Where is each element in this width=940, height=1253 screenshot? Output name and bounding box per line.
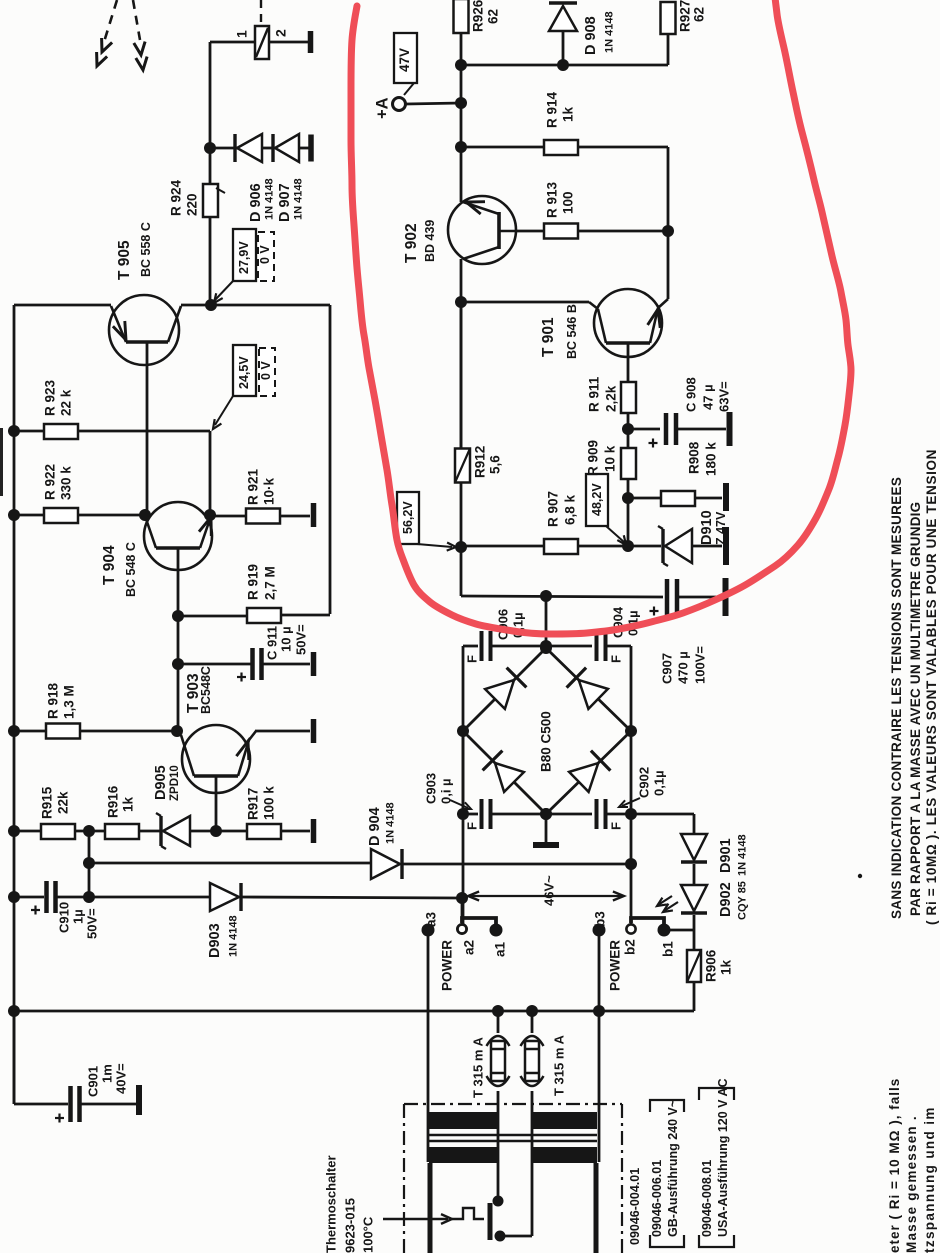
svg-text:R926: R926 [471,0,486,32]
vertical T904 base to T903 collector [177,616,180,731]
svg-text:10·k: 10·k [262,477,277,505]
transistor T903 BC548C (NPN) [182,725,250,793]
svg-text:09046-006.01: 09046-006.01 [650,1160,664,1237]
svg-text:eter ( Ri = 10 MΩ ), falls: eter ( Ri = 10 MΩ ), falls [887,1078,902,1253]
svg-text:1N 4148: 1N 4148 [264,178,276,220]
svg-text:R 913: R 913 [545,181,560,218]
svg-text:Thermoschalter: Thermoschalter [323,1155,338,1253]
measure box 24,5V / 0V [233,345,256,396]
svg-text:1k: 1k [561,106,576,122]
svg-text:ZPD10: ZPD10 [169,765,181,801]
svg-text:2,2k: 2,2k [604,385,619,412]
transistor T904 BC548C (NPN) [144,502,212,570]
diode D904 1N4148 [371,849,400,879]
measure box 48,2V [586,474,608,526]
svg-text:BC 558 C: BC 558 C [139,222,153,277]
svg-text:R 914: R 914 [545,91,560,128]
svg-text:9623-015: 9623-015 [342,1198,357,1253]
bracket b2-b1 [631,918,664,926]
svg-text:PAR RAPPORT A LA MASSE AV: PAR RAPPORT A LA MASSE AVEC UN MULTIMETR… [908,502,923,916]
bridge diode top-right [579,680,608,709]
diode D907 1N4148 [262,147,273,150]
svg-text:D 908: D 908 [583,16,599,55]
svg-text:b2: b2 [623,939,638,955]
46V~ measure arrow [470,895,622,897]
resistor R906 1k (safety) [693,930,696,950]
diode D901 1N4148 [681,860,707,863]
svg-text:10 k: 10 k [603,445,618,472]
svg-text:470 µ: 470 µ [675,651,690,684]
bracket USA version [699,1088,734,1100]
svg-text:100°C: 100°C [360,1216,375,1253]
svg-text:1N 4148: 1N 4148 [293,178,305,220]
zener D905 ZPD10 [159,816,162,846]
svg-text:1N 4148: 1N 4148 [385,802,397,844]
transistor T901 BC546B (NPN) [594,289,662,357]
svg-text:D902: D902 [718,882,734,917]
svg-text:R927: R927 [678,0,693,32]
svg-text:R 923: R 923 [43,379,58,416]
wire to D904 [89,862,371,865]
LED D902 CQY85 [693,915,696,930]
svg-text:T 904: T 904 [101,545,118,585]
svg-text:09046-008.01: 09046-008.01 [700,1160,714,1237]
capacitor C906 0,1u F [480,631,484,661]
resistor R914 1k [455,141,467,153]
transistor T905 BC558C (PNP) [109,295,179,365]
svg-text:R 921: R 921 [246,468,261,505]
terminal +A 47V [455,97,467,109]
node junction D906 [204,142,216,154]
svg-text:1,3 M: 1,3 M [62,685,77,719]
resistor R926 62 [454,0,469,33]
wire pin1 to corner [210,41,256,44]
svg-text:T 315 m A: T 315 m A [470,1036,485,1098]
bridge left vertical / AC a input [462,646,465,924]
top bus 47V [460,65,463,103]
svg-text:R 918: R 918 [46,682,61,719]
svg-text:C907: C907 [659,653,674,684]
svg-text:a1: a1 [493,941,508,957]
resistor R915 22k [8,825,20,837]
resistor R919 2,7M [178,615,247,618]
svg-text:R 922: R 922 [43,464,58,500]
bridge bottom line with C903/C902 [462,731,465,814]
svg-text:1k: 1k [719,959,734,975]
svg-text:1k: 1k [121,796,136,812]
svg-text:R916: R916 [106,785,121,818]
resistor R909 10k [627,479,630,498]
svg-text:R 924: R 924 [169,179,184,216]
svg-text:D901: D901 [718,838,734,873]
bottom bus [14,1010,694,1013]
node R915/R916 [83,825,95,837]
left rail [13,305,16,1104]
svg-text:0,1µ: 0,1µ [651,770,666,796]
T905 collector wire to right bus [181,304,330,307]
svg-text:USA-Ausführung 120 V AC: USA-Ausführung 120 V AC [716,1078,730,1237]
svg-text:100: 100 [561,191,576,214]
wire 48,2V node up [627,498,630,546]
svg-text:1µ: 1µ [70,909,85,924]
svg-text:46V~: 46V~ [541,875,556,906]
svg-text:6,8 k: 6,8 k [563,494,578,525]
T901 collector wire [589,302,598,309]
node C910/D903 [83,891,95,903]
node T903 base [210,825,222,837]
zener D910 Z47V [661,529,664,563]
svg-text:R 907: R 907 [546,491,561,527]
node T904 base / R919 [172,610,184,622]
resistor R924 220 [209,148,212,184]
svg-text:POWER: POWER [440,940,455,991]
svg-text:2,7 M: 2,7 M [263,566,278,600]
capacitor C908 47u 63V [628,428,660,431]
svg-text:5,6: 5,6 [488,455,503,474]
bridge right vertical [630,646,633,864]
terminal a1 [490,924,503,937]
T902 emitter to +A bus [460,103,463,202]
svg-text:GB-Ausführung 240 V~: GB-Ausführung 240 V~ [666,1100,680,1237]
svg-text:C901: C901 [85,1066,100,1097]
bridge ground [545,814,548,842]
resistor R911 2,2k [627,413,630,429]
svg-text:D905: D905 [153,765,169,800]
leader arrow to T905 collector node [215,281,233,300]
resistor R921 10k [210,515,246,518]
T905 emitter wire to left rail [14,304,111,307]
node T903 collector [171,725,183,737]
svg-text:T 902: T 902 [403,223,420,263]
node 56,2V [455,541,467,553]
resistor R927 62 [661,2,676,34]
svg-text:b3: b3 [593,911,608,927]
main + rail from bridge [545,596,548,646]
svg-text:BC548C: BC548C [199,666,213,714]
capacitor C907 470u 100V [665,579,670,615]
diode D903 1N4148 [89,896,210,899]
svg-text:CQY 85: CQY 85 [737,881,749,920]
red hand-drawn loop [351,0,851,634]
svg-text:C910: C910 [56,902,71,933]
wire down to D906 node [209,42,212,148]
R912 5,6 safety resistor [460,482,463,596]
svg-text:22 k: 22 k [59,389,74,416]
measure box 56,2V [397,492,419,544]
svg-text:100V=: 100V= [692,646,707,684]
svg-text:47 µ: 47 µ [700,384,715,410]
svg-text:R 919: R 919 [246,564,261,600]
svg-text:40V=: 40V= [113,1063,128,1094]
capacitor C904 0,1u F [595,631,599,661]
svg-text:B80 C500: B80 C500 [539,711,554,772]
svg-text:1N 4148: 1N 4148 [228,915,240,957]
node T905 collector [205,299,217,311]
svg-text:0 V: 0 V [259,361,273,380]
terminal b3 [593,924,606,937]
right bus R914 to T901 emitter [667,147,670,299]
svg-text:Masse gemessen .: Masse gemessen . [904,1115,919,1253]
transistor T902 BD439 (NPN power) [448,196,516,264]
svg-text:50V=: 50V= [84,908,99,939]
svg-text:2: 2 [273,29,289,37]
svg-text:1m: 1m [99,1064,114,1083]
wire pin2 to ground [269,41,309,44]
svg-text:D 906: D 906 [248,183,264,222]
fuse T315mA b [526,1005,538,1017]
resistor R908 180k [628,497,661,500]
ground at R921 [311,503,317,527]
bridge diode bottom-right [569,763,598,792]
svg-text:0 V: 0 V [258,245,272,264]
bridge diode bottom-left [495,763,524,792]
svg-text:tzspannung und im: tzspannung und im [922,1106,937,1253]
wire b1 to diode chain [664,929,694,932]
bridge diode top-left [485,680,514,709]
svg-text:47V: 47V [397,48,412,72]
svg-text:56,2V: 56,2V [401,501,415,534]
svg-text:63V=: 63V= [716,381,731,412]
svg-text:T 901: T 901 [540,317,557,357]
bracket GB version [650,1100,684,1112]
node 48,2V [622,540,634,552]
node AC a-side 46V [456,892,468,904]
svg-text:62: 62 [692,7,707,22]
terminal b2 [630,864,633,924]
svg-text:BD 439: BD 439 [423,220,437,262]
node T904 emitter [204,509,216,521]
svg-text:b1: b1 [661,941,676,957]
svg-text:1N 4148: 1N 4148 [604,11,616,53]
svg-text:SANS INDICATION CONTRAIRE L: SANS INDICATION CONTRAIRE LES TENSIONS S… [889,477,904,919]
svg-text:220: 220 [185,193,200,216]
LED arrows D902 [658,896,672,905]
svg-text:330 k: 330 k [59,466,74,500]
node R909/R908 [622,492,634,504]
svg-text:24,5V: 24,5V [237,356,251,389]
svg-text:C902: C902 [636,767,651,798]
svg-text:R917: R917 [246,788,261,820]
leader arrow to R923 corner [215,396,233,425]
capacitor C911 10u 50V [172,658,184,670]
terminal a2 (switch) [461,898,464,924]
diode D906 1N4148 [210,147,237,150]
fuse T315mA a [492,1005,504,1017]
resistor R917 100k [216,830,247,833]
svg-text:R912: R912 [473,446,488,478]
bridge diamond B80C500 [463,648,546,731]
dashed light arrows (optocoupler indication) [104,0,117,42]
svg-text:62: 62 [486,9,501,24]
C901 1m 40V [13,1011,16,1104]
resistor R916 1k [105,824,139,839]
box 47V [394,33,417,83]
capacitor C902 0,1u F [595,799,599,829]
svg-text:R908: R908 [687,441,702,474]
connector pins 1-2 [260,0,262,22]
svg-text:09046-004.01: 09046-004.01 [628,1168,642,1245]
T903 emitter wire to ground [249,731,256,740]
svg-text:T 905: T 905 [116,240,133,280]
scan edge artifact [0,428,3,496]
resistor R918 1,3M [8,725,20,737]
svg-text:C906: C906 [495,609,510,640]
svg-text:180 k: 180 k [704,442,719,476]
svg-text:( Ri = 10MΩ ). LES VALEURS S: ( Ri = 10MΩ ). LES VALEURS SONT VALABLES… [924,449,939,925]
svg-text:F: F [464,655,479,663]
capacitor C903 0,1u F [480,799,484,829]
T902 collector node [455,296,467,308]
node y863 [83,857,95,869]
svg-text:50V=: 50V= [293,624,308,655]
svg-text:C 911: C 911 [264,626,279,660]
svg-text:27,9V: 27,9V [237,241,251,274]
svg-text:T 315 m A: T 315 m A [551,1034,566,1096]
svg-text:D903: D903 [207,923,223,958]
svg-text:Z 47V: Z 47V [714,511,728,545]
transformer core [429,1112,497,1129]
svg-text:F: F [608,822,623,830]
svg-text:D 904: D 904 [367,807,383,846]
left rail to bottom bus [8,1005,20,1017]
svg-text:R 909: R 909 [586,440,601,476]
winding bars [428,1163,433,1253]
right bus of left section [329,305,332,614]
transformer dashed box [404,1103,622,1105]
resistor R922 330k [8,509,20,521]
svg-text:BC 548 C: BC 548 C [124,542,138,597]
node R911/C908 [622,423,634,435]
svg-text:1: 1 [234,30,250,38]
svg-text:a2: a2 [462,940,477,955]
svg-text:F: F [608,655,623,663]
svg-text:10 µ: 10 µ [278,626,293,652]
svg-text:+A: +A [373,97,391,119]
ground at pin2 [308,31,314,53]
svg-text:a3: a3 [424,911,439,927]
svg-text:D 907: D 907 [277,183,293,222]
resistor R907 6,8k [461,545,544,548]
svg-text:C 908: C 908 [683,377,698,412]
svg-text:R906: R906 [704,949,719,982]
svg-text:1N 4148: 1N 4148 [737,834,749,876]
node b3 on bus [593,1005,605,1017]
bridge top line with C906/C904 [463,645,478,648]
svg-text:D910: D910 [699,510,715,545]
switch bracket a2-a1 [462,918,496,926]
svg-text:F: F [464,822,479,830]
terminal b1 [658,924,671,937]
svg-text:C903: C903 [423,773,438,804]
measure box 27,9V / 0V [233,229,256,281]
node T904 collector / T905 base [139,509,151,521]
resistor R913 100 [516,230,544,233]
resistor R923 22k [8,425,20,437]
svg-text:BC 546 B: BC 546 B [565,304,579,359]
svg-text:R 911: R 911 [587,376,602,412]
capacitor C910 1u 50V [8,891,20,903]
svg-text:100 k: 100 k [262,786,277,820]
thermoswitch 9623-015 [383,1218,448,1220]
terminal a3 [422,924,435,937]
diode D908 1N4148 [557,59,569,71]
wire R915 node down [88,831,91,897]
T901 emitter wire to right bus [658,299,668,308]
svg-text:22k: 22k [56,791,71,814]
svg-text:R915: R915 [40,786,55,819]
ground at D907 [308,135,314,162]
svg-text:48,2V: 48,2V [590,483,604,516]
svg-text:POWER: POWER [608,940,623,991]
